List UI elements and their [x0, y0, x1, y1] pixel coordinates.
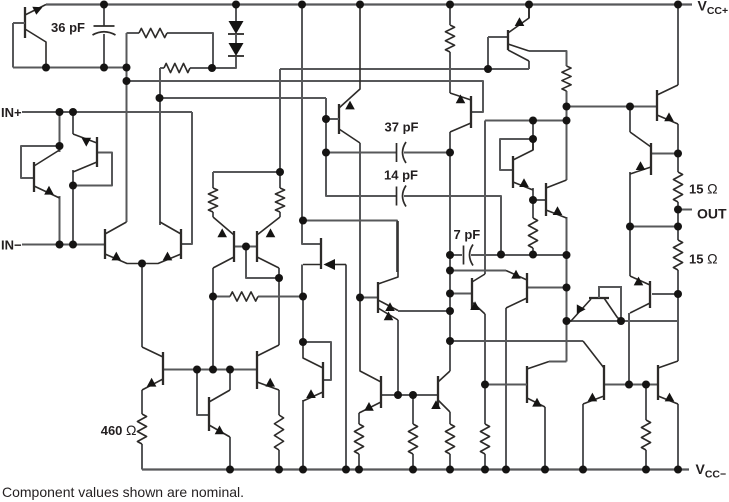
- wire OUT stub: [678, 209, 692, 211]
- wire IN+ drop x192: [181, 112, 192, 244]
- node mirror top: [276, 168, 284, 176]
- wire x279 column: [278, 268, 280, 345]
- wire R under T7 top: [449, 412, 451, 424]
- wire x230 collector: [229, 370, 231, 391]
- node VCC+ out: [674, 1, 682, 9]
- wire R15a bot lead: [677, 202, 679, 227]
- node x566 y106: [563, 103, 571, 111]
- resistor R14: [408, 424, 417, 454]
- bus dot 1: [226, 466, 234, 474]
- transistor Q23 T13 top NPN: [657, 85, 678, 124]
- wire x566 long: [566, 121, 568, 181]
- node y384 a: [625, 381, 633, 389]
- resistor R11 460-ohm: [137, 414, 146, 444]
- wire y69 bus: [280, 68, 529, 70]
- wire IN- lead: [22, 244, 104, 246]
- wire R2 row: [190, 67, 212, 69]
- capacitor C3 14pF: [397, 186, 407, 207]
- wire x303 mid: [302, 297, 304, 343]
- wire x450 mid: [449, 153, 451, 312]
- wire R x279 bot: [278, 450, 280, 470]
- wire y226 link: [630, 226, 678, 228]
- wire y255 7pF net right: [471, 254, 566, 256]
- transistor Q16 T18 PNP: [450, 93, 471, 132]
- svg-text:460 Ω: 460 Ω: [101, 422, 137, 438]
- wire y255 7pF net: [450, 254, 462, 256]
- wire x629 low: [628, 313, 630, 385]
- transistor Q2 input-protect-left: [34, 150, 60, 198]
- node cap37 right: [446, 149, 454, 157]
- label VCC+: [698, 0, 729, 17]
- wire T8 base link: [528, 287, 567, 289]
- wire cap36 bottom lead: [103, 34, 105, 68]
- node T8 base: [563, 284, 571, 292]
- resistor R16: [480, 424, 489, 454]
- wire VCC+ rail: [46, 3, 692, 5]
- wire T4 base link: [360, 297, 377, 299]
- wire T22 emitter drop: [677, 404, 679, 470]
- transistor Q18 T17: [513, 139, 533, 190]
- wire Tb drop: [72, 170, 74, 245]
- wire R1 top: [127, 32, 140, 34]
- wire y270 link: [450, 270, 506, 272]
- label 37pF: [385, 120, 419, 135]
- wire T4 e2 drop: [397, 320, 399, 395]
- wire mirror base tie: [246, 247, 279, 279]
- resistor R10 15-ohm lower: [673, 240, 682, 270]
- transistor Q17 top-right PNP dual-coll: [508, 5, 529, 62]
- resistor R9 15-ohm upper: [673, 172, 682, 202]
- wire T17 base loop: [500, 139, 533, 170]
- node x566 y120: [563, 117, 571, 125]
- wire y293 link: [450, 293, 471, 295]
- wire T22 collector drop: [677, 294, 679, 361]
- wire Ta top: [59, 112, 61, 152]
- bus dot 8: [481, 466, 489, 474]
- wire T17 emitter drop: [532, 188, 534, 218]
- wire mirror base join: [234, 246, 257, 248]
- label 7pF: [454, 227, 481, 242]
- transistor Q10 bottom NPN: [257, 345, 279, 390]
- node x450 y270: [446, 267, 454, 275]
- node x450 y341: [446, 337, 454, 345]
- wire T18 collector drop: [449, 132, 451, 153]
- wire y341 link: [450, 340, 583, 342]
- transistor Q12 T5: [303, 342, 323, 401]
- resistor R2: [164, 63, 190, 72]
- svg-text:15 Ω: 15 Ω: [689, 181, 718, 197]
- node y226 b: [674, 223, 682, 231]
- bus dot 7: [446, 466, 454, 474]
- node y321 left: [563, 317, 571, 325]
- wire cap37 right: [404, 152, 450, 154]
- node x326 cap37: [322, 149, 330, 157]
- wire T12 emitter drop: [629, 172, 631, 227]
- node y395 b: [409, 391, 417, 399]
- transistor Q21 T9: [470, 274, 485, 314]
- wire R15b bot: [677, 270, 679, 294]
- transistor Q22 T10 sideways: [567, 287, 622, 321]
- wire x678 top: [677, 5, 679, 86]
- wire cap36 top lead: [103, 5, 105, 27]
- label 14pF: [384, 168, 418, 183]
- node x302 y221: [299, 217, 307, 225]
- diode D1 top lead: [235, 5, 237, 22]
- node x450 y293: [446, 290, 454, 298]
- bus dot 13: [674, 466, 682, 474]
- wire x359 top: [359, 143, 361, 298]
- node y395 a: [394, 391, 402, 399]
- wire Ta loop: [21, 146, 60, 178]
- node y369 b: [209, 366, 217, 374]
- svg-text:37 pF: 37 pF: [385, 120, 419, 135]
- label IN-: [1, 238, 22, 253]
- wire y98 bus: [160, 97, 327, 99]
- resistor R3: [445, 5, 454, 53]
- transistor Q20 T8 dual-coll PNP: [506, 270, 528, 308]
- svg-text:14 pF: 14 pF: [384, 168, 418, 183]
- node y321 mid: [617, 317, 625, 325]
- wire T17 cluster top: [488, 36, 508, 38]
- wire x230 emitter: [229, 437, 231, 470]
- wire R x279 top: [278, 390, 280, 415]
- transistor Q19 T20: [546, 180, 567, 218]
- wire R x485 top: [484, 385, 486, 425]
- transistor Q7 mirror-right PNP: [257, 217, 280, 268]
- wire hres left lead: [213, 296, 230, 298]
- wire T12 base link: [652, 153, 678, 155]
- wire T20 emitter drop: [566, 217, 568, 362]
- node A coll: [42, 64, 50, 72]
- wire T8 c2 drop: [505, 308, 507, 470]
- resistor R7 mirror-right: [275, 188, 284, 212]
- node y98: [156, 94, 164, 102]
- node IN+ b: [69, 108, 77, 116]
- wire Tdiode emitter drop: [345, 265, 347, 470]
- svg-text:Component values shown are nom: Component values shown are nominal.: [2, 484, 244, 500]
- wire y106 link: [567, 106, 657, 108]
- svg-text:IN−: IN−: [1, 238, 22, 253]
- transistor Q8 tail NPN: [142, 347, 163, 390]
- diode D2: [228, 43, 244, 56]
- node 7pF x566: [563, 251, 571, 259]
- resistor R12: [274, 415, 283, 450]
- node hres right: [299, 293, 307, 301]
- label OUT: [697, 206, 727, 222]
- wire R under T7 bot: [449, 454, 451, 470]
- node y384 T9: [481, 381, 489, 389]
- wire y221 link: [303, 221, 397, 273]
- wire Q1base loop left: [12, 23, 14, 68]
- node R1R2: [208, 64, 216, 72]
- wire R x412 bot: [412, 454, 414, 470]
- resistor R1: [139, 28, 167, 37]
- bus dot 6: [409, 466, 417, 474]
- wire R x485 bot: [484, 454, 486, 470]
- wire T8 emitter lead: [505, 270, 507, 272]
- wire diode bottom: [212, 57, 236, 68]
- wire y51 link: [529, 51, 567, 66]
- wire x160 column: [159, 68, 161, 225]
- wire R1 right to node: [167, 33, 213, 68]
- wire IN+ lead: [22, 111, 192, 113]
- bus dot 5: [355, 466, 363, 474]
- transistor Q5 input-right NPN: [142, 222, 181, 264]
- capacitor C2 37pF: [397, 142, 407, 163]
- node y369 c: [226, 366, 234, 374]
- resistor R6 mirror-left: [208, 188, 217, 212]
- wire x529 emitter: [528, 5, 530, 19]
- node y80: [123, 77, 131, 85]
- node IN- b: [69, 241, 77, 249]
- wire hres right lead: [258, 296, 303, 298]
- capacitor C4 7pF: [464, 245, 474, 266]
- bus dot 11: [579, 466, 587, 474]
- node T11 base: [674, 290, 682, 298]
- label IN+: [1, 105, 22, 120]
- node T4 base: [356, 294, 364, 302]
- bus dot 4: [342, 466, 350, 474]
- wire 460 bot lead: [141, 444, 143, 470]
- wire R x646 top: [645, 385, 647, 421]
- bus dot 10: [541, 466, 549, 474]
- node y106 T13: [626, 103, 634, 111]
- resistor R4: [562, 66, 571, 91]
- wire x197 drop: [197, 370, 209, 416]
- wire R5 bottom lead: [532, 248, 534, 255]
- node Ta tie: [56, 142, 64, 150]
- wire R4 bottom lead: [566, 91, 568, 107]
- node VCC+ cap36: [100, 1, 108, 9]
- wire Tb top: [72, 112, 74, 134]
- node IN- a: [56, 241, 64, 249]
- node OUT: [674, 206, 682, 214]
- wire x630 to T11: [629, 227, 631, 277]
- resistor R15: [445, 424, 454, 454]
- diode D1-D2 link: [235, 34, 237, 43]
- node 7pF r5: [529, 251, 537, 259]
- transistor Q26 T21: [583, 341, 604, 404]
- wire x533 ct: [532, 121, 534, 151]
- wire x126 column: [126, 68, 128, 223]
- transistor Q11 comp PNP: [326, 5, 360, 144]
- resistor R17: [641, 420, 650, 450]
- node VCC+ Q17: [525, 1, 533, 9]
- wire R3 drop: [449, 52, 451, 93]
- transistor Q3 input-protect-right: [73, 134, 97, 172]
- label 460ohm: [101, 422, 137, 438]
- wire mirror res left leads: [212, 172, 214, 188]
- node y369 a: [193, 366, 201, 374]
- wire R1 left lead: [126, 33, 128, 68]
- wire R2 left lead: [160, 67, 164, 69]
- node A cap: [100, 64, 108, 72]
- wire Tdiode collector drop: [301, 265, 303, 297]
- wire mirror left drop: [212, 212, 214, 217]
- node Tb tie: [69, 182, 77, 190]
- wire mirror top: [213, 171, 280, 173]
- node hres left: [209, 293, 217, 301]
- wire T13 emitter drop: [677, 124, 679, 153]
- wire mirror right drop: [279, 212, 281, 217]
- node tail: [138, 260, 146, 268]
- wire x213 column: [212, 268, 214, 369]
- transistor Q25 T11 lower-output PNP: [630, 276, 650, 313]
- svg-text:OUT: OUT: [697, 206, 727, 222]
- node IN+ a: [56, 108, 64, 116]
- wire R under T6 lead: [358, 454, 360, 470]
- wire cap37 left: [326, 152, 396, 154]
- node y384 b: [642, 381, 650, 389]
- wire x450 low: [449, 311, 451, 371]
- wire R15a top lead: [677, 153, 679, 172]
- node VCC+ R3: [446, 1, 454, 9]
- transistor Q4 input-left NPN: [105, 222, 142, 264]
- resistor R8 center: [230, 292, 258, 301]
- resistor R13: [354, 424, 363, 454]
- node y69 Q17: [484, 65, 492, 73]
- wire tail: [141, 264, 143, 348]
- node VCC+ x302: [298, 1, 306, 9]
- wire x488 drop: [487, 37, 489, 69]
- wire Tb loop: [73, 153, 112, 186]
- node T13 emit: [674, 150, 682, 158]
- wire y384 link: [485, 384, 526, 386]
- diode D1: [228, 21, 244, 34]
- node A right: [123, 64, 131, 72]
- node T17 emit: [529, 196, 537, 204]
- node VCC+ Q11: [356, 1, 364, 9]
- node mirror base: [242, 243, 250, 251]
- wire node-A horizontal: [13, 67, 126, 69]
- node 7pF mid: [497, 251, 505, 259]
- resistor R5: [528, 218, 537, 248]
- capacitor C1 36pF: [93, 26, 116, 35]
- wire 460 top lead: [141, 390, 143, 414]
- label 36pF: [51, 20, 85, 35]
- svg-text:15 Ω: 15 Ω: [689, 251, 718, 267]
- node T17 coll: [529, 135, 537, 143]
- node x450 7pF: [446, 251, 454, 259]
- wire T5 emitter drop: [302, 400, 304, 470]
- node VCC+ diode: [232, 1, 240, 9]
- wire T21 collector: [582, 340, 584, 342]
- svg-text:IN+: IN+: [1, 105, 22, 120]
- transistor Q-D3 sideways: [303, 238, 346, 270]
- svg-text:7 pF: 7 pF: [454, 227, 481, 242]
- wire mirror res right leads: [279, 172, 281, 188]
- label 15ohm upper: [689, 181, 718, 197]
- bus dot 12: [642, 466, 650, 474]
- transistor Q9 bottom-left NPN: [209, 390, 230, 437]
- wire x566 upper: [566, 107, 568, 121]
- node y120: [529, 117, 537, 125]
- wire x302 column: [302, 5, 321, 245]
- wire x529 c2: [528, 61, 530, 69]
- transistor Q6 mirror-left PNP: [213, 217, 234, 268]
- wire T23 emitter drop: [544, 407, 546, 470]
- wire R x646 bot: [645, 450, 647, 470]
- wire y395 base bus: [381, 394, 437, 396]
- transistor Q28 T23: [484, 362, 549, 408]
- transistor Q24 T12: [630, 132, 651, 175]
- wire y120 link: [485, 120, 567, 122]
- transistor Q14 T6: [359, 298, 381, 414]
- transistor Q27 T22: [658, 361, 678, 404]
- wire y311 link: [398, 310, 450, 312]
- wire T6 emitter drop: [358, 413, 360, 424]
- wire x630 upper: [629, 107, 631, 133]
- wire T11 base link: [652, 293, 678, 295]
- bus dot 3: [299, 466, 307, 474]
- wire x280 column: [279, 69, 281, 172]
- wire T21 emitter drop: [582, 404, 584, 470]
- wire T5 base loop: [303, 342, 331, 380]
- node y226 a: [626, 223, 634, 231]
- wire T23 collector link: [549, 361, 567, 363]
- wire y384 right bus: [605, 384, 657, 386]
- wire Ta emitter drop: [59, 196, 61, 245]
- node x326 base: [322, 115, 330, 123]
- transistor Q1 top-left PNP: [13, 5, 46, 68]
- wire R15b top: [677, 227, 679, 241]
- wire x326 column: [326, 98, 396, 196]
- wire VCC- rail: [142, 468, 689, 470]
- wire y321 link: [567, 320, 679, 322]
- wire T9 emitter drop: [484, 314, 486, 385]
- caption: [2, 484, 244, 500]
- label VCC-: [696, 461, 727, 481]
- wire cap14 right: [404, 196, 501, 255]
- wire y80 bus: [127, 81, 484, 112]
- node mirror coll: [275, 274, 283, 282]
- label 15ohm lower: [689, 251, 718, 267]
- node x450 y311: [446, 307, 454, 315]
- wire x412 drop: [412, 395, 414, 424]
- wire x485 drop: [484, 121, 486, 275]
- svg-text:36 pF: 36 pF: [51, 20, 85, 35]
- bus dot 2: [275, 466, 283, 474]
- node T5 in: [299, 338, 307, 346]
- wire y369 bus: [163, 369, 257, 371]
- transistor Q13 T4 dual-emitter: [378, 221, 398, 320]
- bus dot 9: [502, 466, 510, 474]
- transistor Q15 T7: [431, 371, 450, 412]
- wire y200 link: [533, 199, 545, 201]
